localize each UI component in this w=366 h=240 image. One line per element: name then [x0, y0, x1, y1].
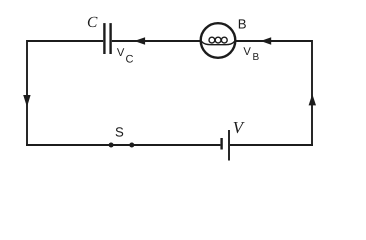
svg-text:C: C: [87, 14, 98, 31]
svg-text:C: C: [126, 53, 134, 65]
svg-text:B: B: [253, 52, 260, 63]
svg-text:V: V: [243, 46, 251, 58]
svg-text:V: V: [117, 47, 125, 59]
svg-text:B: B: [238, 16, 247, 31]
svg-text:V: V: [233, 118, 245, 137]
svg-text:S: S: [115, 125, 124, 140]
